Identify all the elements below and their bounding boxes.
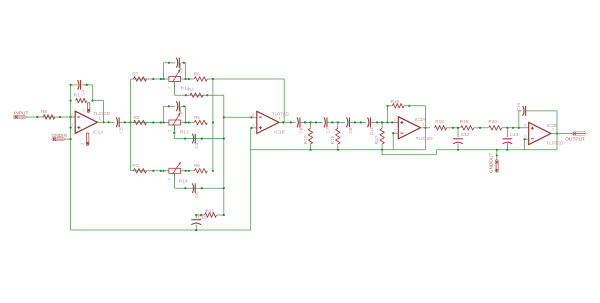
wire <box>392 132 398 150</box>
trimmer wiper <box>173 162 181 174</box>
wire <box>179 63 181 69</box>
wire <box>386 105 426 150</box>
capacitor C7 <box>324 117 330 133</box>
resistor R9 <box>194 163 208 173</box>
capacitor C10 <box>191 215 206 230</box>
svg-text:3: 3 <box>71 123 73 127</box>
wire <box>97 121 131 123</box>
wire <box>181 170 194 172</box>
wire <box>26 116 76 118</box>
op-amp IC1A <box>71 111 110 136</box>
svg-text:C6: C6 <box>298 127 303 133</box>
wire <box>387 106 389 123</box>
resistor R7 <box>132 71 146 81</box>
wire <box>212 79 214 171</box>
svg-text:TL072D: TL072D <box>272 111 290 117</box>
resistor R11 <box>205 209 217 218</box>
wire <box>179 106 181 112</box>
svg-text:TL072D: TL072D <box>546 140 564 146</box>
capacitor C13 <box>503 128 519 150</box>
svg-text:1: 1 <box>99 116 102 121</box>
resistor R20 <box>488 119 501 130</box>
svg-text:3: 3 <box>168 87 172 89</box>
potentiometer (row 2) <box>169 120 181 125</box>
wire <box>212 170 214 172</box>
potentiometer (row 3) <box>169 168 181 173</box>
wire <box>250 127 256 129</box>
wire <box>551 133 572 135</box>
resistor R6 <box>194 71 208 81</box>
svg-text:2: 2 <box>71 113 73 117</box>
wire <box>502 127 529 129</box>
wire <box>437 149 558 151</box>
svg-text:C11: C11 <box>369 127 374 136</box>
svg-text:R18: R18 <box>435 119 444 124</box>
svg-text:R2: R2 <box>133 115 139 120</box>
svg-text:C13: C13 <box>510 132 519 137</box>
capacitor C9 <box>179 179 199 199</box>
wire <box>181 121 194 123</box>
svg-text:3: 3 <box>168 178 172 180</box>
capacitor C3 <box>180 129 199 148</box>
op-amp IC2A <box>394 117 433 142</box>
svg-text:5: 5 <box>524 124 526 128</box>
svg-text:IC2A: IC2A <box>415 117 426 123</box>
svg-text:R17: R17 <box>374 135 380 144</box>
svg-text:5: 5 <box>252 124 254 128</box>
wire <box>251 149 426 151</box>
wire <box>70 85 72 230</box>
svg-text:TL072D: TL072D <box>416 136 434 142</box>
capacitor C6 <box>297 117 303 133</box>
svg-text:R5: R5 <box>194 115 200 120</box>
svg-text:C14: C14 <box>516 103 521 112</box>
wire <box>421 127 431 129</box>
resistor R5 <box>194 115 208 125</box>
svg-text:C12: C12 <box>461 132 470 137</box>
resistor R15 <box>330 122 340 149</box>
wire <box>474 127 488 129</box>
svg-text:R20: R20 <box>488 119 497 124</box>
wire <box>447 127 461 129</box>
wire <box>370 121 398 123</box>
resistor R19 <box>460 119 474 130</box>
wire <box>175 82 224 97</box>
wire <box>175 173 225 189</box>
wire <box>556 111 558 150</box>
svg-text:GNDIN: GNDIN <box>52 133 68 139</box>
pin 3 stub <box>168 82 175 89</box>
svg-text:R16: R16 <box>391 99 400 104</box>
jumper SJ2 <box>80 133 88 146</box>
svg-text:IC1A: IC1A <box>93 130 104 136</box>
svg-text:7: 7 <box>278 116 281 121</box>
resistor R3 <box>132 163 146 173</box>
wire <box>212 121 214 123</box>
trimmer wiper <box>173 113 181 126</box>
capacitor C8 <box>347 117 353 133</box>
node GNDOUT <box>489 150 499 173</box>
svg-text:7: 7 <box>552 127 555 132</box>
svg-text:TL072D: TL072D <box>93 111 111 117</box>
wire <box>382 150 436 155</box>
wire <box>131 121 169 123</box>
capacitor C12 <box>453 128 470 150</box>
svg-text:1: 1 <box>422 122 425 127</box>
svg-text:6: 6 <box>524 134 526 138</box>
potentiometer (row 1) <box>169 77 181 82</box>
wire <box>349 121 366 123</box>
svg-text:IC1B: IC1B <box>274 130 285 136</box>
svg-text:3: 3 <box>82 109 86 111</box>
svg-text:R1: R1 <box>74 92 80 97</box>
svg-text:R8: R8 <box>41 109 47 114</box>
capacitor C11 <box>368 117 374 135</box>
resistor R17 <box>374 122 385 149</box>
wire <box>64 138 71 140</box>
wire <box>524 138 529 150</box>
capacitor C1 <box>176 58 182 74</box>
wire <box>93 101 105 124</box>
svg-text:3: 3 <box>80 143 84 145</box>
wire <box>327 121 345 123</box>
svg-text:R3: R3 <box>132 163 138 168</box>
svg-text:R10: R10 <box>303 135 309 144</box>
svg-text:INPUT: INPUT <box>14 111 28 117</box>
capacitor C5 <box>116 117 123 133</box>
resistor R10 <box>303 122 313 149</box>
resistor R8 <box>41 109 55 119</box>
svg-text:C9: C9 <box>194 192 199 198</box>
svg-text:C10: C10 <box>198 215 207 221</box>
svg-text:R9: R9 <box>194 163 200 168</box>
wire <box>71 128 251 231</box>
wire <box>300 121 323 123</box>
wire <box>279 121 296 123</box>
svg-text:R15: R15 <box>330 135 336 144</box>
svg-text:6: 6 <box>252 113 254 117</box>
svg-text:R4: R4 <box>188 87 194 92</box>
resistor R2 <box>133 115 146 125</box>
capacitor C2 <box>176 101 182 117</box>
svg-text:R14: R14 <box>179 179 188 184</box>
wire <box>130 79 132 171</box>
resistor R16 <box>391 99 404 108</box>
op-amp IC1B <box>252 111 289 135</box>
wire <box>70 84 93 86</box>
resistor R18 <box>435 119 447 130</box>
wire <box>207 78 284 122</box>
node OUTPUT <box>565 132 586 142</box>
node INPUT <box>14 111 29 119</box>
wire <box>131 78 169 80</box>
svg-text:C8: C8 <box>348 127 353 133</box>
capacitor C14 <box>516 103 557 128</box>
op-amp IC2B <box>524 122 564 146</box>
svg-text:C5: C5 <box>118 127 123 133</box>
wire <box>181 78 194 80</box>
svg-text:R6: R6 <box>194 71 200 76</box>
node GNDIN <box>52 133 68 141</box>
wire <box>173 125 225 140</box>
pin 3 stub <box>168 125 175 132</box>
svg-text:C3: C3 <box>194 142 199 148</box>
wire <box>223 95 225 215</box>
svg-text:C4: C4 <box>81 89 86 95</box>
wire <box>164 105 186 122</box>
svg-text:GNDOUT: GNDOUT <box>489 153 494 173</box>
pin 3 stub <box>168 173 175 180</box>
resistor R12 <box>181 85 203 97</box>
wire <box>91 85 93 102</box>
svg-text:R13: R13 <box>180 129 189 134</box>
svg-text:2: 2 <box>394 129 396 133</box>
jumper SJ1 <box>82 103 90 113</box>
svg-text:OUTPUT: OUTPUT <box>565 136 585 142</box>
svg-text:C7: C7 <box>325 127 330 133</box>
wire <box>195 214 225 216</box>
trimmer wiper <box>173 69 181 82</box>
wire <box>223 116 257 118</box>
svg-text:3: 3 <box>168 130 172 132</box>
svg-text:R19: R19 <box>460 119 469 124</box>
capacitor C4 <box>78 80 86 96</box>
resistor R1 <box>74 92 87 103</box>
svg-text:3: 3 <box>394 118 396 122</box>
wire <box>131 170 169 172</box>
svg-text:R7: R7 <box>132 71 138 76</box>
wire <box>164 62 186 79</box>
